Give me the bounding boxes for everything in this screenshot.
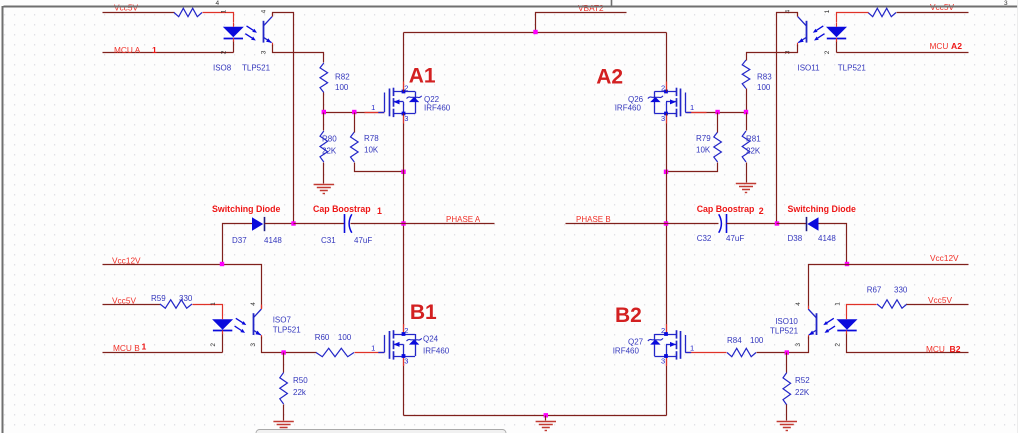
wire bottom rail (404, 415, 667, 417)
Q27 source bar (654, 356, 676, 358)
svg-text:MCU: MCU (930, 41, 949, 51)
svg-text:D37: D37 (232, 236, 247, 245)
svg-text:100: 100 (750, 336, 764, 345)
svg-text:PHASE A: PHASE A (446, 215, 481, 224)
junction phase A / bootstrap (401, 221, 405, 225)
resistor R52 22K (783, 373, 810, 406)
resistor R83 (742, 60, 772, 92)
transistor Q26 (A2 high side) (615, 84, 694, 123)
resistor R80 (320, 131, 337, 162)
svg-text:R82: R82 (335, 73, 350, 82)
wire Vcc12V left (103, 265, 262, 309)
wire R80 top (323, 113, 325, 131)
svg-text:Vcc5V: Vcc5V (114, 3, 138, 13)
Q27 source dot pin 3 (664, 354, 668, 358)
svg-text:R80: R80 (322, 135, 337, 144)
wire MCU B to ISO7 pin2 (103, 352, 223, 354)
Q27 gate lead (685, 335, 687, 353)
bottom popup panel (256, 430, 506, 433)
zone divider tick (611, 0, 613, 6)
wire ISO11 pin4 to bootstrap node B (777, 13, 798, 224)
wire R81 to ground (746, 163, 748, 183)
svg-text:1: 1 (834, 302, 841, 306)
Q24 source dot pin 3 (402, 354, 406, 358)
svg-text:R81: R81 (746, 135, 761, 144)
capacitor C32 47uF (697, 214, 745, 243)
svg-text:A2: A2 (596, 65, 623, 88)
svg-text:1: 1 (690, 344, 694, 353)
wire R82 to gate node A1 (323, 93, 325, 113)
svg-text:R78: R78 (364, 134, 379, 143)
svg-text:3: 3 (661, 114, 665, 123)
svg-text:A2: A2 (951, 41, 962, 51)
wire phase B to C32 (667, 223, 719, 225)
Q26 body diode (654, 92, 656, 114)
pin stub Q26 drain (666, 82, 668, 90)
svg-text:C31: C31 (321, 236, 336, 245)
svg-text:MCU A: MCU A (114, 45, 141, 55)
Q27 drain bar (654, 334, 676, 336)
wire B2 source to bottom rail (666, 357, 668, 416)
junction R78 tap (352, 110, 356, 114)
Q26 gate (680, 89, 682, 117)
svg-text:100: 100 (338, 333, 352, 342)
Q26 source bar (654, 113, 676, 115)
wire R50 to ground (283, 405, 285, 421)
svg-text:D38: D38 (788, 234, 803, 243)
svg-text:22k: 22k (293, 388, 307, 397)
svg-text:1: 1 (690, 103, 694, 112)
resistor R81 (742, 131, 761, 162)
wire R79 top (717, 113, 719, 133)
Q24 source bar (393, 356, 415, 358)
wire ISO10 pin1 to R67 (847, 305, 877, 316)
svg-text:R59: R59 (151, 294, 166, 303)
wire right drain bus (666, 33, 668, 92)
svg-text:ISO10: ISO10 (775, 317, 798, 326)
Q27 substrate arrow (666, 344, 676, 346)
Q22 drain bar (393, 91, 415, 93)
junction D38/Vcc12V (845, 262, 849, 266)
wire ISO11 pin3 to R83 (747, 45, 798, 61)
svg-text:2: 2 (404, 84, 408, 93)
ISO11 light arrows (817, 26, 824, 30)
wire R84 to Q27 gate (687, 352, 727, 354)
wire ISO7 pin4 lead (261, 305, 263, 309)
junction R52/gate B2 (785, 350, 789, 354)
wire R78 top (354, 113, 356, 133)
pin stub Q26 source (666, 116, 668, 124)
resistor R50 22k (280, 373, 308, 405)
Q26 drain dot pin 2 (664, 90, 668, 94)
svg-text:ISO8: ISO8 (213, 64, 232, 73)
svg-text:330: 330 (894, 285, 908, 294)
junction D37/C31/ISO8-pin4 (291, 221, 295, 225)
ISO7 LED (212, 319, 233, 330)
resistor R79 (696, 132, 721, 162)
junction Vcc12V/D37 branch (220, 262, 224, 266)
wire node to C31 (294, 223, 345, 225)
svg-text:TLP521: TLP521 (838, 64, 867, 73)
svg-text:TLP521: TLP521 (242, 64, 271, 73)
svg-text:3: 3 (404, 114, 408, 123)
resistor R59 330 (151, 294, 193, 308)
svg-text:1: 1 (210, 302, 217, 306)
wire left source bus / phase A column (403, 114, 405, 335)
wire ISO11 pin2 lead (836, 41, 838, 53)
resistor R67 330 (867, 285, 908, 308)
opto-coupler ISO7 (210, 302, 301, 347)
ground under R80 (314, 185, 334, 194)
svg-text:Vcc12V: Vcc12V (112, 255, 141, 265)
junction phase B / bootstrap (664, 221, 668, 225)
wire ISO7 pin3 to gate node B1 (262, 337, 317, 353)
resistor R60 100 (315, 333, 354, 357)
wire VBAT2 stub (536, 13, 627, 33)
svg-text:PHASE B: PHASE B (576, 215, 611, 224)
svg-text:2: 2 (834, 343, 841, 347)
wire B1 source to bottom rail (403, 357, 405, 416)
wire ISO8 pin2 lead (233, 41, 235, 53)
svg-text:2: 2 (221, 50, 228, 54)
sheet border left (2, 6, 4, 433)
svg-text:Q26: Q26 (628, 95, 644, 104)
svg-text:Q24: Q24 (423, 334, 439, 343)
wire PHASE A stub (404, 223, 495, 225)
Q24 gate lead (384, 335, 386, 353)
Q27 channel (676, 330, 678, 338)
svg-text:ISO7: ISO7 (273, 316, 292, 325)
wire R78 to source bus (355, 163, 404, 172)
wire Vcc5V left to R59 (103, 304, 161, 306)
svg-text:Vcc5V: Vcc5V (112, 295, 136, 305)
wire ISO11 pin1 to R (837, 13, 869, 23)
wire R52 to ground (786, 405, 788, 421)
Q22 drain dot pin 2 (402, 90, 406, 94)
svg-text:Cap Boostrap: Cap Boostrap (313, 204, 371, 214)
Q24 drain bar (393, 334, 415, 336)
capacitor C31 47uF (321, 214, 372, 245)
junction R82/R80/gate (322, 110, 326, 114)
wire R50 top (283, 353, 285, 373)
ISO8 phototransistor (263, 21, 265, 43)
svg-text:1: 1 (221, 9, 228, 13)
svg-text:MCU: MCU (926, 344, 945, 354)
pin stub Q27 source (666, 358, 668, 366)
svg-text:VBAT2: VBAT2 (578, 3, 604, 13)
pin stub Q24 drain (403, 324, 405, 332)
wire D38 anode to Vcc12V (819, 224, 847, 265)
svg-text:B2: B2 (950, 344, 961, 354)
svg-text:TLP521: TLP521 (770, 327, 799, 336)
svg-text:Switching Diode: Switching Diode (788, 204, 857, 214)
svg-text:Cap Boostrap: Cap Boostrap (697, 204, 755, 214)
canvas edge strip (1018, 0, 1024, 433)
svg-text:4: 4 (216, 0, 220, 7)
svg-text:1: 1 (371, 344, 375, 353)
svg-text:R79: R79 (696, 134, 711, 143)
svg-text:4: 4 (261, 9, 268, 13)
Q24 body diode (415, 334, 417, 356)
Q22 gate lead (384, 93, 386, 113)
Q24 drain dot pin 2 (402, 332, 406, 336)
junction VBAT2/top rail (533, 30, 537, 34)
svg-text:22K: 22K (322, 147, 337, 156)
ISO10 phototransistor (816, 313, 818, 335)
svg-text:3: 3 (404, 356, 408, 365)
Q22 gate (389, 89, 391, 117)
junction R81/R83/gate (744, 110, 748, 114)
svg-text:2: 2 (210, 343, 217, 347)
Q22 channel (393, 88, 395, 96)
svg-text:3: 3 (795, 343, 802, 347)
svg-text:3: 3 (250, 343, 257, 347)
wire R83 to gate node A2 (746, 89, 748, 113)
junction C32/D38/ISO11-pin4 (775, 221, 779, 225)
Q24 channel (393, 330, 395, 338)
svg-text:330: 330 (179, 294, 193, 303)
ISO11 phototransistor (806, 21, 808, 43)
wire ground stem bottom rail (545, 416, 547, 421)
Q26 source dot pin 3 (664, 112, 668, 116)
svg-text:1: 1 (142, 341, 147, 351)
wire MCU A to ISO8 pin2 (103, 52, 234, 54)
Q24 substrate arrow (393, 344, 403, 346)
wire R81 top (746, 113, 748, 131)
wire ISO8 pin4 to bootstrap node A (273, 13, 294, 224)
svg-text:IRF460: IRF460 (615, 104, 642, 113)
sheet border top (4, 6, 1024, 8)
wire left drain bus (403, 33, 405, 92)
resistor R84 100 (727, 336, 764, 357)
svg-text:C32: C32 (697, 234, 712, 243)
pin stub Q22 source (403, 116, 405, 124)
svg-text:47uF: 47uF (354, 236, 372, 245)
svg-text:22K: 22K (795, 388, 810, 397)
svg-text:Q22: Q22 (424, 95, 440, 104)
svg-text:R50: R50 (293, 376, 308, 385)
wire Vcc12V right (809, 265, 969, 309)
transistor Q24 (B1 low side) (371, 326, 450, 365)
Q22 source bar (393, 113, 415, 115)
wire D37 cathode to node (265, 223, 294, 225)
svg-text:A1: A1 (409, 65, 436, 88)
resistor (Vcc5V series, top right) (868, 8, 896, 16)
svg-text:3: 3 (1004, 0, 1008, 7)
wire Vcc5V to R (top left) (103, 12, 175, 14)
svg-text:3: 3 (661, 356, 665, 365)
svg-text:2: 2 (404, 326, 408, 335)
svg-text:2: 2 (759, 206, 764, 216)
Q26 gate lead (685, 93, 687, 113)
ISO10 light arrows (827, 318, 834, 322)
wire C32 to node (727, 223, 777, 225)
junction R79/source bus (664, 170, 668, 174)
svg-text:4: 4 (795, 302, 802, 306)
ISO8 LED (223, 27, 244, 38)
opto-coupler ISO11 (785, 9, 867, 72)
Q26 drain bar (654, 91, 676, 93)
svg-text:R84: R84 (727, 336, 742, 345)
svg-text:Vcc12V: Vcc12V (930, 253, 959, 263)
ground bottom rail (536, 422, 556, 431)
svg-text:R60: R60 (315, 333, 330, 342)
junction bottom rail ground tap (544, 413, 548, 417)
svg-text:IRF460: IRF460 (423, 346, 450, 355)
svg-text:1: 1 (824, 9, 831, 13)
wire MCU A2 to ISO11 pin2 (837, 52, 969, 54)
wire ISO7 pin2 lead (222, 333, 224, 353)
wire C31 to phase A (351, 223, 404, 225)
wire ISO8 pin3 to R82 (273, 45, 324, 63)
svg-text:4: 4 (250, 302, 257, 306)
Q27 body diode (654, 334, 656, 356)
pin stub Q22 drain (403, 82, 405, 90)
zone divider tick right (1019, 0, 1021, 6)
svg-text:B2: B2 (615, 304, 642, 327)
ISO7 light arrows (236, 318, 243, 322)
Q22 substrate arrow (393, 101, 403, 103)
Q27 drain dot pin 2 (664, 332, 668, 336)
svg-text:47uF: 47uF (726, 234, 744, 243)
ISO7 phototransistor (253, 313, 255, 335)
wire R to ISO8 pin1 (203, 13, 234, 23)
svg-text:1: 1 (377, 206, 382, 216)
svg-text:Q27: Q27 (628, 338, 644, 347)
junction R78/source bus (401, 170, 405, 174)
diode D38 4148 (788, 217, 837, 243)
ISO8 light arrows (247, 26, 254, 30)
svg-text:4148: 4148 (264, 236, 282, 245)
wire R79 to source bus (667, 163, 718, 172)
ground under R81 (736, 184, 756, 193)
wire R80 to ground (323, 163, 325, 184)
wire ISO10 pin2 to MCU B2 (847, 333, 969, 353)
Q27 gate (680, 331, 682, 359)
wire gate pin lead A1 (365, 112, 385, 114)
svg-text:MCU B: MCU B (113, 343, 140, 353)
wire R60 to Q24 gate (355, 352, 385, 354)
ground under R50 (273, 422, 293, 431)
ISO10 LED (837, 319, 858, 330)
Q26 channel (676, 88, 678, 96)
svg-text:R67: R67 (867, 285, 882, 294)
opto-coupler ISO10 (770, 302, 858, 347)
wire gate pin lead A2 (687, 112, 707, 114)
svg-text:1: 1 (371, 103, 375, 112)
wire ISO10 pin3 to gate node B2 (757, 337, 809, 353)
resistor R78 (351, 132, 380, 162)
wire R59 to ISO7 pin1 (193, 305, 223, 316)
svg-text:ISO11: ISO11 (798, 64, 821, 73)
Q24 gate (389, 331, 391, 359)
resistor R82 (320, 63, 350, 93)
svg-text:10K: 10K (696, 146, 711, 155)
svg-text:R83: R83 (757, 73, 772, 82)
ISO11 LED (826, 27, 847, 38)
svg-text:22K: 22K (746, 147, 761, 156)
wire Vcc5V to R (top right) (897, 12, 969, 14)
svg-text:R52: R52 (795, 376, 810, 385)
svg-text:10K: 10K (364, 146, 379, 155)
svg-text:3: 3 (261, 50, 268, 54)
wire PHASE B stub (566, 223, 667, 225)
junction R50/gate B1 (281, 350, 285, 354)
Q22 body diode (415, 92, 417, 114)
wire Vcc12V to D37 anode (223, 224, 253, 265)
svg-text:100: 100 (335, 83, 349, 92)
svg-text:1: 1 (152, 45, 157, 55)
wire R52 top (786, 353, 788, 373)
wire right source bus / phase B column (666, 114, 668, 335)
svg-text:IRF460: IRF460 (424, 104, 451, 113)
wire gate node A1 row (324, 112, 385, 114)
Q26 substrate arrow (666, 101, 676, 103)
svg-text:100: 100 (757, 83, 771, 92)
svg-text:B1: B1 (410, 301, 437, 324)
diode D37 4148 (232, 217, 282, 245)
wire top bus VBAT2 rail (404, 32, 667, 34)
resistor (Vcc5V series, top left) (174, 8, 202, 16)
Q22 source dot pin 3 (402, 112, 406, 116)
svg-text:Switching Diode: Switching Diode (212, 204, 281, 214)
transistor Q27 (B2 low side) (613, 326, 694, 365)
svg-text:2: 2 (661, 84, 665, 93)
wire gate node A2 row (687, 112, 747, 114)
wire node to D38 cathode (777, 223, 807, 225)
junction R79 tap (715, 110, 719, 114)
opto-coupler ISO8 (213, 9, 273, 72)
transistor Q22 (A1 high side) (371, 84, 451, 123)
pin stub Q27 drain (666, 324, 668, 332)
svg-text:IRF460: IRF460 (613, 346, 640, 355)
pin stub Q24 source (403, 358, 405, 366)
svg-text:Vcc5V: Vcc5V (928, 295, 952, 305)
ground under R52 (777, 422, 797, 431)
svg-text:2: 2 (661, 326, 665, 335)
svg-text:4148: 4148 (818, 234, 836, 243)
svg-text:2: 2 (824, 50, 831, 54)
svg-text:TLP521: TLP521 (273, 325, 302, 334)
wire R67 to Vcc5V (907, 304, 969, 306)
